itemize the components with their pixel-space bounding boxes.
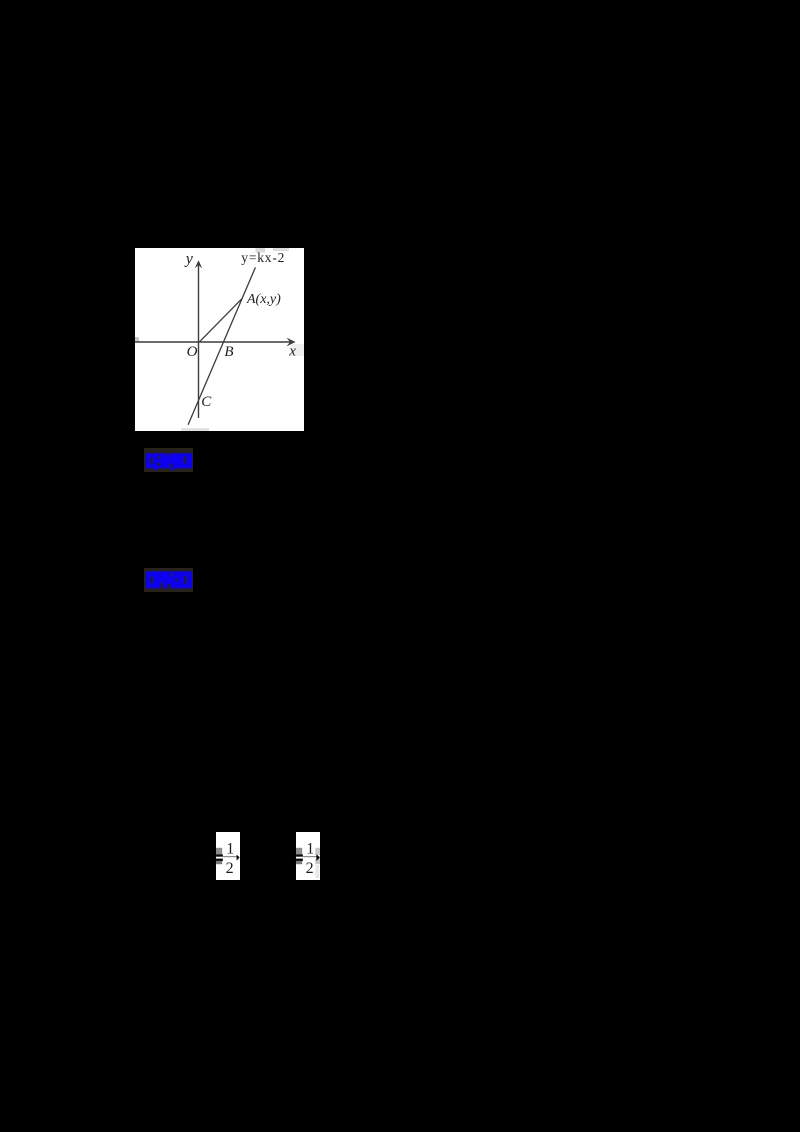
svg-text:1: 1 bbox=[226, 840, 234, 857]
svg-text:y: y bbox=[184, 251, 194, 268]
svg-text:2: 2 bbox=[306, 860, 314, 877]
svg-text:B: B bbox=[224, 344, 233, 360]
svg-text:1: 1 bbox=[306, 840, 314, 857]
svg-text:2: 2 bbox=[226, 860, 234, 877]
svg-text:O: O bbox=[187, 344, 198, 360]
svg-text:A(x,y): A(x,y) bbox=[246, 292, 281, 307]
svg-text:y=kx-2: y=kx-2 bbox=[241, 250, 285, 265]
svg-text:x: x bbox=[288, 343, 296, 359]
svg-text:C: C bbox=[201, 394, 212, 410]
